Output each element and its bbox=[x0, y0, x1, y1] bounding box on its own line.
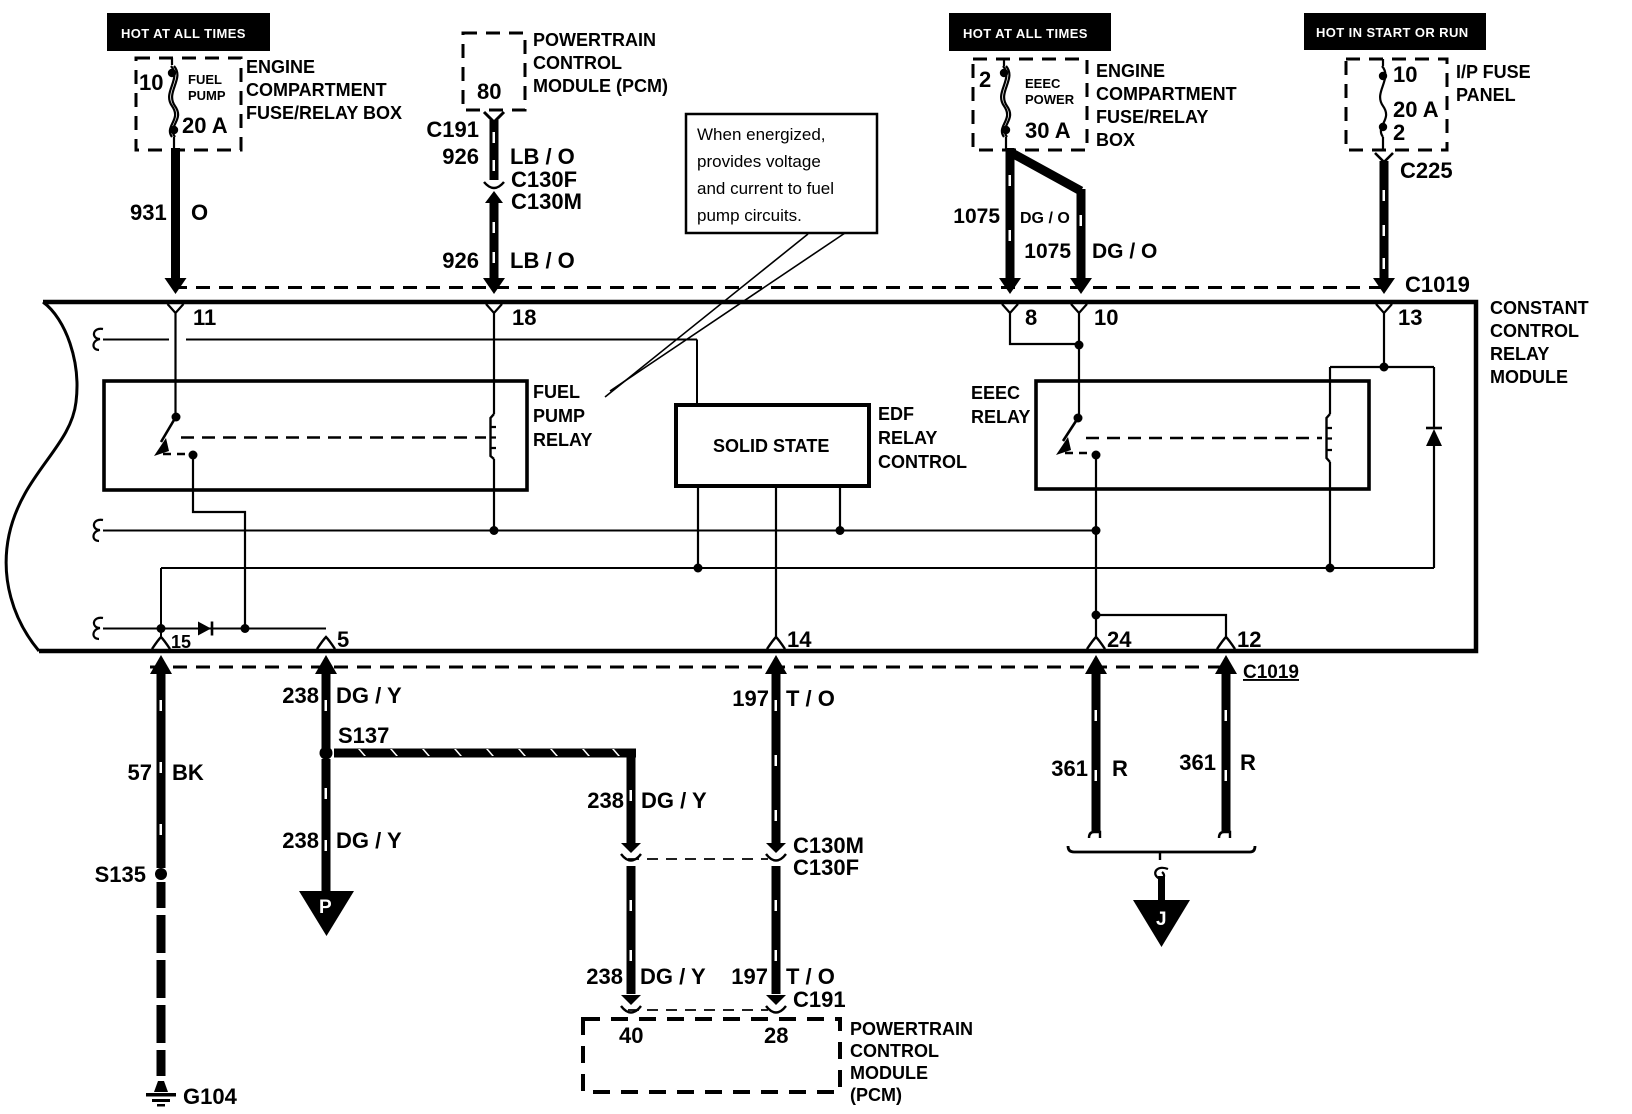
svg-text:DG / Y: DG / Y bbox=[336, 828, 402, 853]
svg-text:G104: G104 bbox=[183, 1084, 238, 1109]
svg-text:PUMP: PUMP bbox=[188, 88, 226, 103]
svg-text:O: O bbox=[191, 200, 208, 225]
svg-text:24: 24 bbox=[1107, 627, 1132, 652]
svg-text:DG / Y: DG / Y bbox=[640, 964, 706, 989]
svg-text:C1019: C1019 bbox=[1243, 662, 1299, 683]
svg-text:13: 13 bbox=[1398, 305, 1422, 330]
svg-text:MODULE: MODULE bbox=[1490, 367, 1568, 387]
svg-text:10: 10 bbox=[1393, 62, 1417, 87]
svg-text:BOX: BOX bbox=[1096, 130, 1135, 150]
svg-text:C1019: C1019 bbox=[1405, 272, 1470, 297]
svg-text:238: 238 bbox=[586, 964, 623, 989]
svg-text:PANEL: PANEL bbox=[1456, 85, 1516, 105]
svg-text:20 A: 20 A bbox=[1393, 97, 1439, 122]
svg-text:provides voltage: provides voltage bbox=[697, 152, 821, 171]
svg-text:COMPARTMENT: COMPARTMENT bbox=[246, 80, 387, 100]
svg-text:1075: 1075 bbox=[953, 205, 1000, 228]
svg-text:30 A: 30 A bbox=[1025, 118, 1071, 143]
svg-text:P: P bbox=[319, 897, 332, 918]
svg-text:80: 80 bbox=[477, 79, 501, 104]
svg-text:POWERTRAIN: POWERTRAIN bbox=[850, 1019, 973, 1039]
svg-text:40: 40 bbox=[619, 1023, 643, 1048]
svg-text:926: 926 bbox=[442, 144, 479, 169]
svg-text:FUEL: FUEL bbox=[188, 72, 222, 87]
svg-text:R: R bbox=[1240, 750, 1256, 775]
svg-text:HOT IN START OR RUN: HOT IN START OR RUN bbox=[1316, 25, 1469, 40]
svg-text:RELAY: RELAY bbox=[971, 407, 1030, 427]
svg-text:FUSE/RELAY BOX: FUSE/RELAY BOX bbox=[246, 103, 402, 123]
svg-text:10: 10 bbox=[1094, 305, 1118, 330]
svg-text:C191: C191 bbox=[793, 987, 846, 1012]
svg-text:EEEC: EEEC bbox=[971, 383, 1020, 403]
svg-text:EEEC: EEEC bbox=[1025, 76, 1061, 91]
svg-text:361: 361 bbox=[1179, 750, 1216, 775]
svg-text:C225: C225 bbox=[1400, 158, 1453, 183]
svg-text:C130M: C130M bbox=[511, 189, 582, 214]
svg-text:238: 238 bbox=[587, 788, 624, 813]
svg-text:DG / O: DG / O bbox=[1092, 240, 1157, 263]
svg-text:197: 197 bbox=[731, 964, 768, 989]
svg-text:10: 10 bbox=[139, 70, 163, 95]
svg-text:8: 8 bbox=[1025, 305, 1037, 330]
svg-text:CONSTANT: CONSTANT bbox=[1490, 298, 1589, 318]
svg-text:FUSE/RELAY: FUSE/RELAY bbox=[1096, 107, 1208, 127]
svg-text:2: 2 bbox=[1393, 120, 1405, 145]
svg-text:238: 238 bbox=[282, 683, 319, 708]
svg-text:361: 361 bbox=[1051, 756, 1088, 781]
svg-text:CONTROL: CONTROL bbox=[878, 452, 967, 472]
svg-text:and current to fuel: and current to fuel bbox=[697, 179, 834, 198]
svg-text:MODULE: MODULE bbox=[850, 1063, 928, 1083]
svg-text:12: 12 bbox=[1237, 627, 1261, 652]
svg-text:28: 28 bbox=[764, 1023, 788, 1048]
svg-text:1075: 1075 bbox=[1024, 240, 1071, 263]
svg-text:LB / O: LB / O bbox=[510, 248, 575, 273]
svg-text:POWERTRAIN: POWERTRAIN bbox=[533, 30, 656, 50]
svg-text:11: 11 bbox=[193, 305, 216, 330]
svg-text:15: 15 bbox=[171, 632, 191, 652]
svg-text:EDF: EDF bbox=[878, 404, 914, 424]
svg-text:S137: S137 bbox=[338, 723, 389, 748]
svg-text:When energized,: When energized, bbox=[697, 125, 826, 144]
svg-text:931: 931 bbox=[130, 200, 167, 225]
svg-text:SOLID STATE: SOLID STATE bbox=[713, 436, 829, 456]
svg-text:MODULE (PCM): MODULE (PCM) bbox=[533, 76, 668, 96]
svg-text:5: 5 bbox=[337, 627, 349, 652]
svg-text:926: 926 bbox=[442, 248, 479, 273]
svg-text:DG / Y: DG / Y bbox=[641, 788, 707, 813]
svg-text:(PCM): (PCM) bbox=[850, 1085, 902, 1105]
svg-text:LB / O: LB / O bbox=[510, 144, 575, 169]
svg-text:R: R bbox=[1112, 756, 1128, 781]
svg-text:J: J bbox=[1156, 909, 1167, 930]
svg-text:T / O: T / O bbox=[786, 964, 835, 989]
svg-text:2: 2 bbox=[979, 67, 991, 92]
svg-text:BK: BK bbox=[172, 760, 204, 785]
svg-text:RELAY: RELAY bbox=[1490, 344, 1549, 364]
svg-text:ENGINE: ENGINE bbox=[246, 57, 315, 77]
svg-text:CONTROL: CONTROL bbox=[850, 1041, 939, 1061]
svg-text:CONTROL: CONTROL bbox=[533, 53, 622, 73]
svg-text:DG / Y: DG / Y bbox=[336, 683, 402, 708]
svg-text:S135: S135 bbox=[95, 862, 146, 887]
svg-text:ENGINE: ENGINE bbox=[1096, 61, 1165, 81]
svg-text:FUEL: FUEL bbox=[533, 382, 580, 402]
svg-text:pump circuits.: pump circuits. bbox=[697, 206, 802, 225]
svg-text:I/P FUSE: I/P FUSE bbox=[1456, 62, 1531, 82]
svg-text:20 A: 20 A bbox=[182, 113, 228, 138]
svg-text:57: 57 bbox=[128, 760, 152, 785]
svg-text:RELAY: RELAY bbox=[878, 428, 937, 448]
svg-text:C191: C191 bbox=[426, 117, 479, 142]
svg-text:DG / O: DG / O bbox=[1020, 210, 1070, 227]
svg-text:COMPARTMENT: COMPARTMENT bbox=[1096, 84, 1237, 104]
svg-text:238: 238 bbox=[282, 828, 319, 853]
svg-text:197: 197 bbox=[732, 686, 769, 711]
svg-text:POWER: POWER bbox=[1025, 92, 1075, 107]
svg-text:RELAY: RELAY bbox=[533, 430, 592, 450]
svg-text:HOT AT ALL TIMES: HOT AT ALL TIMES bbox=[121, 26, 246, 41]
svg-text:CONTROL: CONTROL bbox=[1490, 321, 1579, 341]
svg-text:HOT AT ALL TIMES: HOT AT ALL TIMES bbox=[963, 26, 1088, 41]
svg-text:18: 18 bbox=[512, 305, 536, 330]
svg-text:C130F: C130F bbox=[793, 855, 859, 880]
svg-text:T / O: T / O bbox=[786, 686, 835, 711]
svg-text:14: 14 bbox=[787, 627, 812, 652]
svg-text:PUMP: PUMP bbox=[533, 406, 585, 426]
